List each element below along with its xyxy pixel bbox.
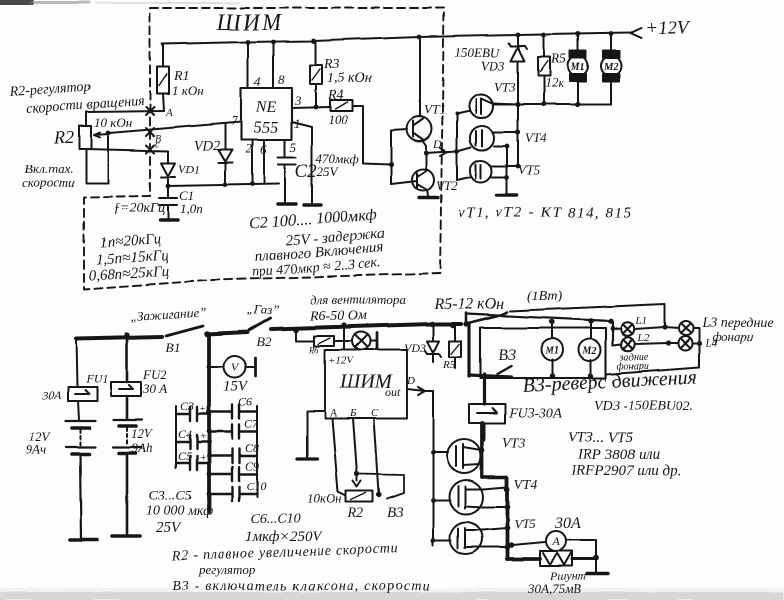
svg-text:М1: М1	[544, 346, 559, 357]
svg-text:C9: C9	[245, 459, 259, 473]
svg-text:R3: R3	[323, 57, 340, 72]
svg-text:VT4: VT4	[514, 478, 537, 493]
svg-text:5: 5	[290, 140, 297, 155]
svg-text:VT3... VT5: VT3... VT5	[568, 430, 634, 446]
svg-text:NE: NE	[255, 99, 277, 116]
svg-text:A: A	[165, 107, 173, 119]
svg-text:В3: В3	[387, 505, 404, 521]
svg-text:C8: C8	[245, 441, 259, 455]
svg-text:FU3-30A: FU3-30A	[508, 406, 562, 421]
svg-text:L4: L4	[704, 337, 717, 349]
svg-text:1,5 кОн: 1,5 кОн	[327, 71, 372, 86]
svg-text:vT1, vT2 - КТ 814, 815: vT1, vT2 - КТ 814, 815	[458, 205, 633, 221]
svg-text:VD3: VD3	[404, 341, 426, 355]
svg-text:VT1: VT1	[424, 102, 446, 117]
svg-text:Б: Б	[349, 407, 357, 419]
svg-text:10 кОн: 10 кОн	[94, 115, 132, 130]
svg-text:Вкл.mах.: Вкл.mах.	[25, 161, 73, 176]
svg-text:VD3: VD3	[481, 58, 505, 73]
svg-text:(1Вт): (1Вт)	[527, 289, 562, 304]
svg-text:скорости: скорости	[22, 175, 75, 190]
svg-text:+12V: +12V	[645, 18, 691, 39]
svg-text:VT3: VT3	[494, 79, 516, 94]
svg-text:R1: R1	[173, 69, 190, 84]
svg-text:C10: C10	[246, 479, 266, 493]
svg-text:R2: R2	[347, 506, 364, 521]
svg-text:ƒ=20кГц: ƒ=20кГц	[113, 201, 165, 216]
svg-text:R5: R5	[442, 359, 456, 371]
svg-text:VT2: VT2	[436, 178, 458, 193]
svg-text:6: 6	[260, 142, 267, 157]
svg-text:C3...С5: C3...С5	[149, 489, 192, 504]
svg-text:1: 1	[294, 116, 301, 131]
svg-text:L1: L1	[635, 315, 648, 327]
svg-text:VT5: VT5	[518, 162, 540, 177]
svg-text:15V: 15V	[223, 379, 249, 395]
svg-text:30 А: 30 А	[142, 381, 167, 396]
svg-text:+: +	[199, 403, 206, 415]
svg-text:C: C	[371, 407, 379, 419]
svg-text:В2: В2	[257, 334, 272, 349]
svg-text:8: 8	[278, 72, 285, 87]
svg-text:12к: 12к	[545, 75, 565, 90]
svg-text:ШИМ: ШИМ	[216, 10, 283, 35]
svg-text:30А: 30А	[41, 388, 62, 402]
svg-text:VT3: VT3	[502, 436, 525, 451]
svg-text:C2: C2	[295, 161, 318, 182]
svg-text:R5-12 кОн: R5-12 кОн	[433, 296, 504, 313]
svg-text:555: 555	[253, 118, 279, 137]
svg-text:10кОн: 10кОн	[307, 491, 342, 506]
svg-text:C6: C6	[238, 395, 252, 409]
svg-text:30А: 30А	[554, 515, 581, 532]
svg-text:М2: М2	[603, 62, 618, 73]
svg-text:FU2: FU2	[142, 367, 167, 382]
svg-text:10 000 мкф: 10 000 мкф	[146, 504, 213, 519]
svg-text:В3: В3	[498, 347, 516, 364]
svg-text:C5: C5	[178, 449, 192, 463]
svg-text:М1: М1	[570, 62, 585, 73]
svg-text:R2: R2	[53, 127, 74, 147]
svg-text:+: +	[199, 452, 206, 464]
svg-text:3: 3	[294, 93, 302, 108]
svg-text:C3: C3	[180, 399, 194, 413]
svg-text:IRFP2907 или др.: IRFP2907 или др.	[570, 463, 681, 479]
svg-text:регулятор: регулятор	[198, 562, 256, 577]
svg-text:A: A	[551, 534, 560, 548]
svg-text:VD1: VD1	[178, 162, 200, 176]
svg-text:100: 100	[328, 112, 348, 127]
svg-text:L2: L2	[637, 332, 650, 344]
svg-text:для вентилятора: для вентилятора	[310, 292, 406, 307]
svg-text:out: out	[385, 385, 401, 399]
svg-text:R6-50 Ом: R6-50 Ом	[309, 309, 367, 324]
svg-text:IRP 3808 или: IRP 3808 или	[577, 447, 660, 463]
svg-text:C7: C7	[244, 417, 259, 431]
svg-text:VD3 -150ЕВU02.: VD3 -150ЕВU02.	[594, 399, 694, 414]
svg-text:12V: 12V	[131, 426, 154, 441]
svg-text:VT5: VT5	[514, 516, 536, 531]
svg-text:1,0п: 1,0п	[180, 201, 203, 216]
svg-text:D: D	[406, 375, 415, 387]
svg-text:В3 - включатель клаксона, скор: В3 - включатель клаксона, скорости	[172, 579, 431, 594]
svg-text:VT4: VT4	[525, 130, 547, 145]
svg-text:R4: R4	[327, 88, 344, 103]
svg-text:фонари: фонари	[712, 329, 754, 344]
svg-text:+: +	[199, 431, 206, 443]
svg-text:+12V: +12V	[328, 355, 354, 367]
svg-text:30А,75мВ: 30А,75мВ	[527, 581, 581, 596]
svg-text:A: A	[329, 407, 337, 419]
svg-text:С6...С10: С6...С10	[250, 512, 300, 527]
svg-text:1мкф×250V: 1мкф×250V	[245, 529, 323, 545]
svg-text:25V: 25V	[317, 164, 340, 179]
svg-text:R6: R6	[308, 345, 319, 355]
svg-text:2: 2	[245, 141, 252, 156]
svg-text:4: 4	[254, 74, 261, 89]
svg-text:25V: 25V	[156, 520, 182, 536]
svg-text:c: c	[155, 139, 160, 150]
svg-text:D: D	[432, 137, 442, 151]
svg-text:R5: R5	[550, 52, 567, 67]
svg-text:7: 7	[231, 113, 238, 128]
svg-text:В1: В1	[166, 340, 180, 355]
svg-text:9Ah: 9Ah	[132, 440, 153, 455]
svg-text:„Газ”: „Газ”	[246, 302, 279, 317]
svg-text:FU1: FU1	[85, 372, 108, 386]
svg-text:VD2: VD2	[194, 139, 220, 154]
svg-text:C4: C4	[178, 427, 192, 441]
svg-text:9Ач: 9Ач	[26, 442, 47, 457]
svg-text:М2: М2	[582, 346, 597, 357]
svg-text:1 кОн: 1 кОн	[172, 83, 204, 98]
